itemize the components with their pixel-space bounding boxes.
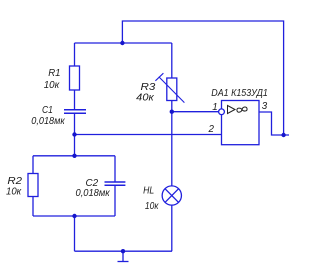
node tank top xyxy=(72,154,76,158)
ground xyxy=(118,251,129,261)
wire node down to tank xyxy=(74,135,76,156)
wire tank top xyxy=(33,155,115,157)
svg-text:0,018мк: 0,018мк xyxy=(76,188,111,199)
wire R3 bottom xyxy=(171,101,173,112)
svg-text:R2: R2 xyxy=(7,176,22,187)
svg-text:R3: R3 xyxy=(141,82,156,93)
lamp HL xyxy=(162,186,181,205)
wire pin2 line xyxy=(75,134,222,136)
svg-text:1: 1 xyxy=(212,102,217,113)
wire pin1 line xyxy=(172,111,219,113)
wire output pin3 xyxy=(259,112,289,135)
resistor R1 xyxy=(70,66,80,90)
node R3 bottom xyxy=(170,110,174,114)
node junction top xyxy=(120,41,124,45)
op-amp infinity symbol xyxy=(236,106,247,113)
wire tank to bottom rail xyxy=(74,216,76,251)
wire R3 top xyxy=(171,43,173,78)
wire lamp bottom xyxy=(171,205,173,251)
node ground xyxy=(121,249,125,253)
pin 1 inversion circle xyxy=(219,109,225,115)
node tank bottom xyxy=(72,214,76,218)
wire C2 bottom lead xyxy=(114,185,116,216)
wire top rail xyxy=(122,21,283,135)
resistor R3 xyxy=(167,78,177,101)
trimmer arrow R3 xyxy=(155,73,184,102)
wire bottom rail xyxy=(75,250,173,252)
wire R1 to C1 xyxy=(74,90,76,110)
node output xyxy=(281,133,285,137)
svg-text:40к: 40к xyxy=(136,92,154,103)
wire C1 to node xyxy=(74,113,76,134)
svg-text:10к: 10к xyxy=(6,187,22,198)
wire tank left upper xyxy=(32,156,34,174)
wire to lamp xyxy=(171,112,173,186)
node C1 bottom xyxy=(72,132,76,136)
svg-text:DA1 К153УД1: DA1 К153УД1 xyxy=(211,88,267,99)
wire tank bottom xyxy=(33,215,115,217)
wire R1 top xyxy=(74,43,76,66)
svg-text:10к: 10к xyxy=(44,80,60,91)
wire upper horizontal xyxy=(75,42,172,44)
svg-text:3: 3 xyxy=(262,101,268,112)
svg-text:HL: HL xyxy=(143,186,154,197)
op-amp DA1 box xyxy=(222,101,260,145)
resistor R2 xyxy=(28,174,38,197)
capacitor C2 xyxy=(105,182,126,185)
svg-text:C1: C1 xyxy=(42,105,53,116)
capacitor C1 xyxy=(64,110,86,113)
svg-text:R1: R1 xyxy=(48,68,60,79)
svg-text:2: 2 xyxy=(208,124,215,135)
wire C2 top lead xyxy=(114,156,116,182)
svg-text:0,018мк: 0,018мк xyxy=(31,116,65,127)
wire tank left lower xyxy=(32,197,34,217)
svg-text:10к: 10к xyxy=(145,201,159,212)
op-amp triangle symbol xyxy=(228,106,236,114)
